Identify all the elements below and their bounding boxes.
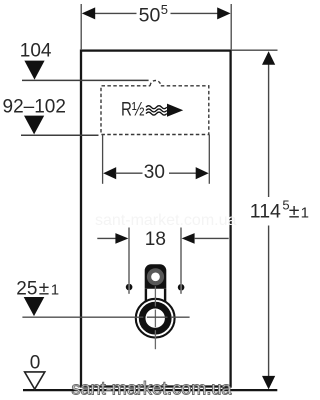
dimension line 114.5 upper segment xyxy=(268,63,270,197)
outlet thick black ring xyxy=(142,305,168,331)
inlet ring hole (white) xyxy=(151,272,160,281)
vertical centerline of fixture xyxy=(154,286,156,349)
module outline (sanitary module body) xyxy=(81,51,231,387)
svg-text:104: 104 xyxy=(20,40,52,61)
dashed water-supply zone rectangle xyxy=(101,86,209,135)
arrowhead right of dimension 50.5 xyxy=(217,7,230,19)
arrowhead top of dimension 114.5 xyxy=(262,51,275,65)
outlet outer circle xyxy=(136,299,175,338)
svg-text:sant-market.com.ua: sant-market.com.ua xyxy=(95,212,236,229)
svg-text:92–102: 92–102 xyxy=(3,96,66,117)
extension line left of dimension 50.5 xyxy=(80,4,82,49)
svg-text:50: 50 xyxy=(139,5,161,27)
dimension line 50.5 right segment xyxy=(171,12,219,14)
datum line 104 xyxy=(22,79,149,81)
dimension line 50.5 left segment xyxy=(94,12,137,14)
arrowhead left of dimension 30 xyxy=(103,167,116,179)
module foot bottom-right xyxy=(223,387,230,390)
dimension 18 right tail xyxy=(194,237,229,239)
svg-text:5: 5 xyxy=(161,2,168,17)
datum triangle 25 xyxy=(24,297,45,316)
extension line top of dimension 114.5 xyxy=(231,49,277,51)
datum triangle 104 xyxy=(24,61,44,80)
svg-text:18: 18 xyxy=(145,229,166,250)
dashed arc notch on top of zone xyxy=(150,81,161,86)
label 50-5 xyxy=(139,2,168,27)
svg-text:1: 1 xyxy=(51,282,59,299)
extension line right of dimension 18 xyxy=(180,228,182,294)
datum triangle 0 (open) xyxy=(25,372,45,389)
horizontal centerline / dimension line 25 xyxy=(22,316,189,318)
dimension line 30 right segment xyxy=(169,172,197,174)
arrowhead left of dimension 18 xyxy=(115,233,128,244)
extension line left of dimension 18 xyxy=(128,228,130,294)
inlet ring outer (gray) xyxy=(147,268,164,285)
dimension line 114.5 lower segment xyxy=(268,226,270,378)
svg-text:±: ± xyxy=(39,279,49,300)
arrowhead left of dimension 50.5 xyxy=(82,7,95,19)
svg-text:sant-market.com.ua: sant-market.com.ua xyxy=(72,379,233,399)
dimension 18 left tail xyxy=(97,237,116,239)
bracket side bar left xyxy=(145,289,147,302)
svg-text:R½: R½ xyxy=(121,99,145,120)
svg-text:114: 114 xyxy=(250,201,281,223)
extension line right of dimension 30 xyxy=(208,135,210,184)
bracket head (black yoke top) xyxy=(145,264,167,289)
svg-text:30: 30 xyxy=(144,162,165,183)
fixing screw right xyxy=(178,284,185,291)
arrowhead right of dimension 18 xyxy=(182,233,195,244)
arrowhead bottom of dimension 114.5 xyxy=(262,376,275,390)
svg-text:1: 1 xyxy=(301,205,309,222)
label 114-5 plus-minus 1 xyxy=(250,198,309,223)
datum line 92-102 xyxy=(21,134,99,136)
arrowhead right of dimension 30 xyxy=(196,167,209,179)
extension line left of dimension 30 xyxy=(102,135,104,184)
ground line xyxy=(23,389,277,391)
water flow arrow xyxy=(167,104,183,117)
dimension line 30 left segment xyxy=(116,172,143,174)
fixing screw left xyxy=(126,284,133,291)
svg-text:25: 25 xyxy=(16,279,37,300)
bracket side bar right xyxy=(164,289,166,302)
datum triangle 92-102 xyxy=(24,116,44,135)
label 25 plus-minus 1 xyxy=(16,279,59,300)
water flow wave lines xyxy=(146,106,167,115)
extension line right of dimension 50.5 xyxy=(230,4,232,49)
svg-text:±: ± xyxy=(289,201,300,223)
svg-text:0: 0 xyxy=(30,352,41,373)
